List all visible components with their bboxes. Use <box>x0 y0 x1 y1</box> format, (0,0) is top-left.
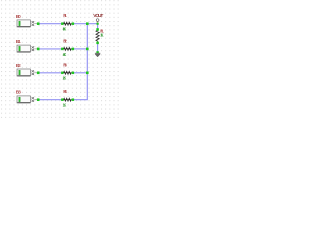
svg-text:R3: R3 <box>63 62 67 67</box>
svg-text:R1: R1 <box>63 13 67 18</box>
svg-text:B1: B1 <box>16 39 21 44</box>
svg-text:B0: B0 <box>16 14 21 19</box>
svg-text:R2: R2 <box>63 38 67 43</box>
svg-text:1K: 1K <box>100 32 103 37</box>
svg-text:VOUT: VOUT <box>93 13 103 19</box>
svg-text:R4: R4 <box>63 89 67 94</box>
svg-text:B3: B3 <box>16 90 22 95</box>
svg-text:B2: B2 <box>16 63 21 68</box>
